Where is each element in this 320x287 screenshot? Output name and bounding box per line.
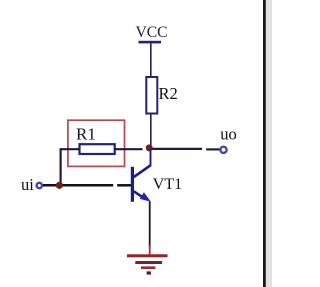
svg-text:VT1: VT1: [153, 176, 182, 193]
svg-text:R1: R1: [76, 125, 96, 144]
svg-text:ui: ui: [21, 175, 34, 194]
svg-text:VCC: VCC: [135, 24, 167, 41]
svg-text:R2: R2: [159, 84, 178, 103]
svg-text:uo: uo: [220, 124, 237, 143]
